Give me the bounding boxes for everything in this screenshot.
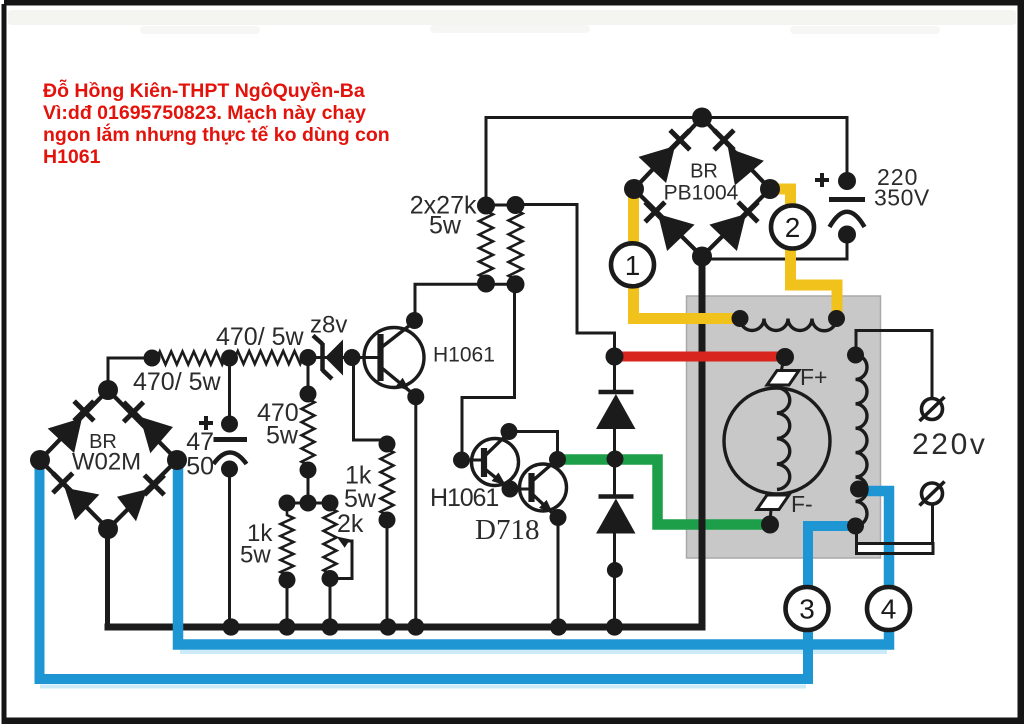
node: F- green return xyxy=(761,516,779,534)
resistor 1k 5w (left) xyxy=(281,510,294,580)
wire: stator bottom to 220v lower terminal xyxy=(855,527,858,545)
node: stator tap to (4) xyxy=(850,481,867,498)
wire: PB1004 bottom node to filter cap - xyxy=(702,235,847,260)
node: red feed left end / diode chain top xyxy=(606,348,624,366)
wire: thick ground bus from PB1004 bottom node xyxy=(105,254,703,627)
svg-text:5w: 5w xyxy=(266,422,299,450)
svg-text:5w: 5w xyxy=(344,485,377,513)
svg-text:2k: 2k xyxy=(337,510,364,538)
resistor 470 5w xyxy=(302,394,315,470)
junction dot on diode chain xyxy=(607,562,623,578)
zener diode z8v xyxy=(308,356,352,359)
svg-text:H1061: H1061 xyxy=(433,344,495,367)
wire: 2x27k top pair link xyxy=(486,204,516,207)
brush F- xyxy=(757,495,789,510)
svg-text:3: 3 xyxy=(799,594,815,625)
resistor pair 2x27k 5w xyxy=(479,206,493,284)
wire: 2x27k bottom pair link to H1061 collector xyxy=(415,284,516,320)
brush F+ xyxy=(781,358,784,372)
node: stator bottom to (3) xyxy=(847,518,864,535)
wire: green, regulator output to F- brush xyxy=(556,460,770,525)
potentiometer 2k xyxy=(324,503,337,579)
stator winding (right, in housing) xyxy=(856,355,868,526)
wire: top rail, 2x27k top to PB1004 top and filter cap + xyxy=(486,118,847,207)
transistor Q1 H1061 xyxy=(364,328,424,388)
node label (3) xyxy=(786,587,829,630)
svg-text:F-: F- xyxy=(791,491,813,517)
wire: 2k wiper tie-down xyxy=(331,541,352,579)
wire: blue, W02M right AC via (4) to stator tap xyxy=(178,463,889,645)
wire: yellow, PB1004 right AC to exciter winding right xyxy=(771,189,837,317)
node label (4) xyxy=(867,587,910,630)
bridge rectifier BR PB1004 xyxy=(624,108,780,267)
node label (1) xyxy=(611,243,654,286)
wire: divider tee horizontal xyxy=(287,502,330,505)
wire: zener junction down to 470 5w xyxy=(307,357,310,394)
wire: 470/5w junction down to 47uF cap + xyxy=(228,358,231,424)
exciter winding (top, in housing) xyxy=(740,319,837,331)
wire: yellow, PB1004 left AC to exciter winding left xyxy=(634,192,741,319)
wire: BR W02M bottom node to ground bus xyxy=(105,527,110,627)
wire: red, regulated field feed to F+ brush xyxy=(617,352,785,362)
wire: W02M top node to 470/5w chain xyxy=(108,358,152,386)
wire: stator top to 220v upper terminal xyxy=(856,331,932,399)
svg-text:z8v: z8v xyxy=(310,312,347,339)
capacitor 220/350V (electrolytic) xyxy=(838,172,856,190)
svg-text:F+: F+ xyxy=(800,364,827,390)
svg-text:BR: BR xyxy=(690,161,718,183)
svg-text:ngon lắm nhưng thực tế ko dùng: ngon lắm nhưng thực tế ko dùng con xyxy=(43,122,390,146)
svg-text:470/ 5w: 470/ 5w xyxy=(133,368,222,396)
diode D1 (upper, by F+ feed) xyxy=(599,390,634,395)
svg-text:H1061: H1061 xyxy=(430,484,498,512)
scan fringe under blue buses (decorative) xyxy=(40,685,806,689)
node: F+ red feed xyxy=(776,348,794,366)
rotor (field) circle xyxy=(724,388,830,494)
wire: blue, W02M left AC via (3) to stator bottom xyxy=(40,463,855,679)
svg-text:50: 50 xyxy=(186,453,214,481)
svg-text:PB1004: PB1004 xyxy=(664,182,739,205)
svg-text:470/ 5w: 470/ 5w xyxy=(216,323,305,351)
svg-text:4: 4 xyxy=(881,594,897,625)
svg-text:220v: 220v xyxy=(912,428,987,461)
junction dots on ground bus xyxy=(222,618,239,635)
wire: 470 5w bottom to divider tee xyxy=(307,470,310,503)
bridge rectifier BR W02M xyxy=(30,380,187,539)
svg-text:D718: D718 xyxy=(475,514,539,546)
capacitor 47/50 (electrolytic) xyxy=(221,416,238,433)
generator housing (gray box) xyxy=(687,296,881,558)
svg-text:5w: 5w xyxy=(240,542,271,569)
svg-text:2: 2 xyxy=(785,212,801,243)
svg-text:1: 1 xyxy=(625,250,641,281)
wire: 47uF cap - down to ground bus xyxy=(228,469,231,627)
resistor 470/5w (left) xyxy=(152,352,230,365)
node label (2) xyxy=(771,206,814,249)
wire: 2k bottom to ground bus xyxy=(329,578,332,627)
terminal lower (phi) xyxy=(922,483,943,504)
wire: diode chain lower segment to ground bus xyxy=(613,459,616,495)
svg-text:350V: 350V xyxy=(874,185,930,211)
svg-text:Vì:dđ 01695750823. Mạch này ch: Vì:dđ 01695750823. Mạch này chạy xyxy=(43,102,366,124)
wire: 1k 5w top lead xyxy=(286,503,289,510)
wire: H1061(1) emitter down to ground bus xyxy=(414,397,417,627)
junction dot divider tee xyxy=(300,495,317,512)
annotation: author note (red) xyxy=(43,78,390,168)
wire: H1061(2) collector to regulator node xyxy=(509,432,558,459)
wire: 1k 5w (2) bottom to ground bus xyxy=(386,520,389,627)
wire: zener node to 1k 5w (2) xyxy=(354,358,388,444)
rotor field winding xyxy=(777,388,790,490)
svg-text:H1061: H1061 xyxy=(43,146,101,168)
node: green regulator output xyxy=(607,451,624,468)
transistor Q3 D718 xyxy=(520,464,567,511)
wire: 2x27k right top to red feed node xyxy=(516,205,615,357)
terminal upper (phi) xyxy=(922,399,943,420)
wire: D718 emitter down to ground bus xyxy=(557,518,560,627)
svg-text:5w: 5w xyxy=(429,212,462,240)
wire: 2x27k bottom node down to H1061(2) base xyxy=(462,284,515,456)
svg-text:W02M: W02M xyxy=(72,449,141,476)
transistor Q2 H1061 xyxy=(472,439,519,486)
wire: D1 feed node to diode chain / green node xyxy=(613,357,616,391)
svg-text:Đỗ Hồng Kiên-THPT NgôQuyền-Ba: Đỗ Hồng Kiên-THPT NgôQuyền-Ba xyxy=(43,78,365,102)
resistor 470/5w (right) xyxy=(230,351,308,364)
resistor 1k 5w (right) xyxy=(381,444,394,520)
diode D2 (lower) xyxy=(599,494,634,499)
wire: 1k 5w bottom to ground bus xyxy=(286,579,289,627)
